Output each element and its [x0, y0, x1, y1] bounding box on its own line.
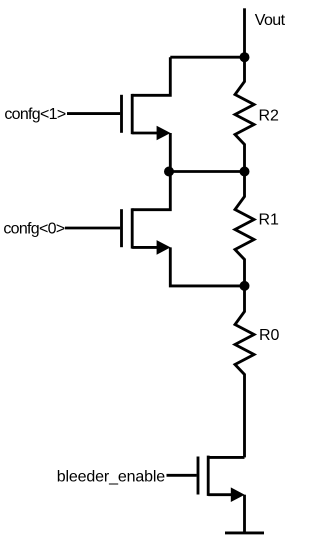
transistor Q2 channel bar [131, 208, 134, 248]
svg-text:R2: R2 [259, 108, 280, 125]
transistor Q1 gate lead wire [67, 112, 120, 115]
transistor Q2 source arrowhead [157, 240, 171, 255]
transistor Q2 gate bar [120, 209, 123, 247]
svg-text:confg<0>: confg<0> [3, 221, 64, 238]
transistor Q3 gate lead wire [167, 474, 197, 477]
wire Q2 source down and right to R1-R0 junction [170, 247, 244, 286]
resistor R2 [235, 57, 254, 171]
transistor Q3 source lead [208, 493, 231, 496]
node Vout junction dot [240, 52, 250, 62]
node R1-R0 junction dot [240, 281, 250, 291]
transistor Q2 drain lead [132, 172, 170, 210]
transistor Q3 drain lead [208, 456, 244, 459]
node R2-R1 junction dot [240, 167, 250, 177]
transistor Q1 source arrowhead [157, 126, 171, 141]
node A junction dot [164, 167, 174, 177]
wire Q1 source down to node A [169, 133, 172, 172]
wire Vout stub [243, 8, 246, 57]
resistor R0 [235, 286, 254, 458]
resistor R1 [235, 172, 254, 286]
transistor Q2 source lead [132, 246, 157, 249]
transistor Q1 source lead [132, 132, 157, 135]
wire Q3 source to ground [243, 495, 246, 533]
svg-text:bleeder_enable: bleeder_enable [57, 468, 165, 485]
svg-text:R1: R1 [259, 212, 280, 229]
ground [225, 531, 264, 534]
wire node A to R2-R1 junction [170, 170, 244, 173]
transistor Q3 source arrowhead [231, 487, 245, 502]
transistor Q3 gate bar [197, 457, 200, 495]
transistor Q1 channel bar [131, 94, 134, 134]
transistor Q2 gate lead wire [65, 227, 120, 230]
svg-text:R0: R0 [259, 327, 280, 344]
wire Q1 drain to Vout node [170, 56, 244, 59]
transistor Q1 gate bar [120, 95, 123, 133]
transistor Q1 drain lead [132, 57, 170, 95]
svg-text:confg<1>: confg<1> [4, 106, 65, 123]
svg-text:Vout: Vout [255, 12, 286, 29]
transistor Q3 channel bar [207, 456, 210, 496]
